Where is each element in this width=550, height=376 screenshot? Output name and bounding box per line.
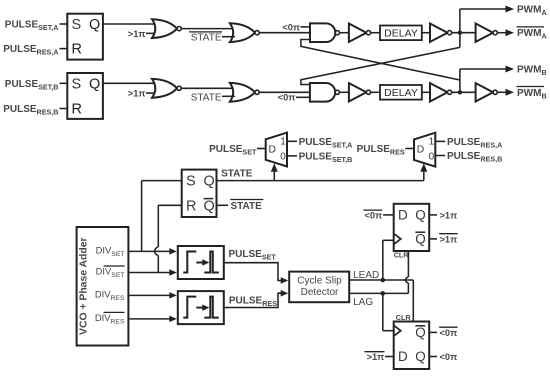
svg-text:D: D <box>269 144 276 155</box>
svg-text:Q: Q <box>204 198 215 214</box>
svg-text:>1π: >1π <box>367 352 385 362</box>
svg-text:<0π: <0π <box>440 352 458 362</box>
svg-text:D: D <box>417 144 424 155</box>
svg-text:<0π: <0π <box>440 328 458 338</box>
svg-text:>1π: >1π <box>128 88 146 98</box>
svg-text:Q: Q <box>204 174 215 190</box>
svg-text:STATE: STATE <box>191 92 222 103</box>
svg-text:STATE: STATE <box>221 168 253 179</box>
svg-text:DELAY: DELAY <box>384 87 418 99</box>
svg-text:Cycle Slip: Cycle Slip <box>297 276 342 287</box>
svg-text:R: R <box>186 198 196 214</box>
svg-text:CLR: CLR <box>394 251 410 260</box>
svg-text:R: R <box>72 42 82 58</box>
svg-text:1: 1 <box>280 137 286 148</box>
svg-text:CLR: CLR <box>396 313 412 322</box>
svg-text:STATE: STATE <box>231 201 263 212</box>
svg-text:D: D <box>398 349 408 364</box>
svg-text:R: R <box>72 102 82 118</box>
svg-text:>1π: >1π <box>440 210 458 220</box>
svg-text:LAG: LAG <box>353 297 373 308</box>
svg-text:S: S <box>72 76 82 92</box>
svg-text:<0π: <0π <box>364 210 382 220</box>
svg-text:VCO + Phase Adder: VCO + Phase Adder <box>79 237 90 335</box>
svg-text:0: 0 <box>429 152 435 163</box>
svg-text:Q: Q <box>415 325 426 340</box>
svg-text:<0π: <0π <box>282 22 300 32</box>
svg-text:0: 0 <box>280 151 286 162</box>
svg-text:>1π: >1π <box>440 234 458 244</box>
svg-text:Q: Q <box>89 17 100 33</box>
svg-text:<0π: <0π <box>278 93 296 103</box>
svg-text:Q: Q <box>415 208 426 223</box>
svg-text:LEAD: LEAD <box>353 270 379 281</box>
svg-text:>1π: >1π <box>128 29 146 39</box>
svg-text:STATE: STATE <box>191 33 222 44</box>
svg-text:D: D <box>398 208 408 223</box>
svg-text:1: 1 <box>429 137 435 148</box>
svg-text:Detector: Detector <box>301 287 339 298</box>
svg-text:DELAY: DELAY <box>384 28 418 40</box>
svg-text:Q: Q <box>415 232 426 247</box>
svg-text:Q: Q <box>415 349 426 364</box>
svg-text:Q: Q <box>89 76 100 92</box>
svg-text:S: S <box>72 17 82 33</box>
svg-text:S: S <box>186 174 196 190</box>
